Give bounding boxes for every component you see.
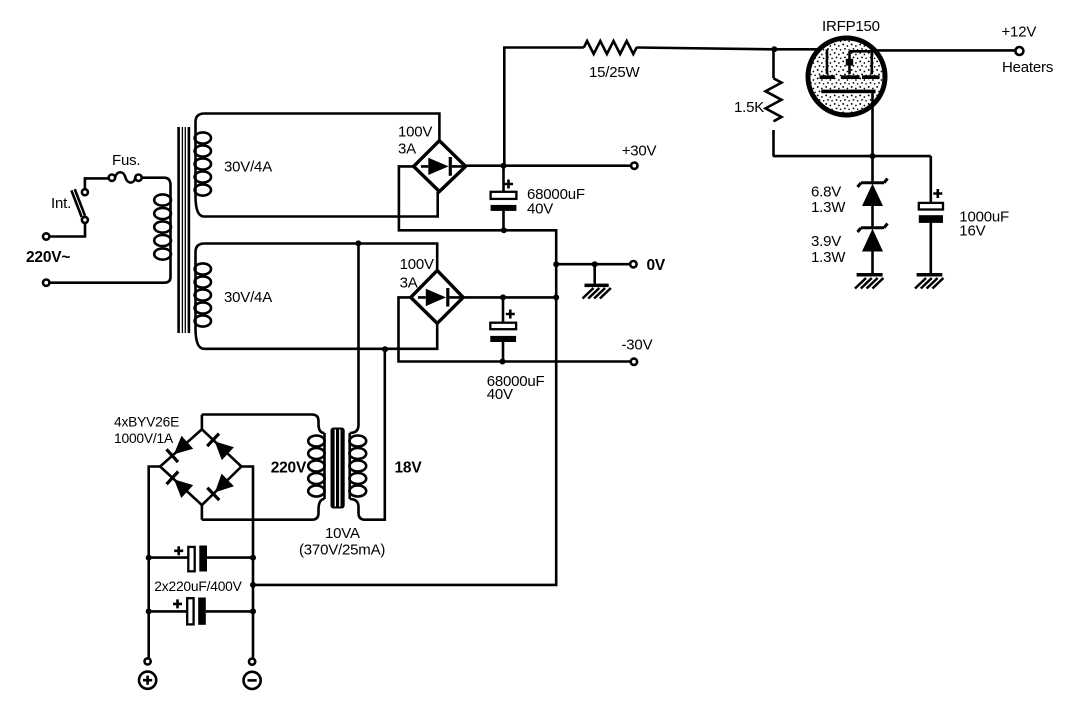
svg-text:3A: 3A xyxy=(398,140,416,157)
diode D3a xyxy=(174,436,193,455)
capacitor C5 220uF/400V xyxy=(149,546,253,572)
transformer T2 secondary 18V xyxy=(349,425,366,507)
transformer T2 core xyxy=(331,428,345,509)
wire input L to switch xyxy=(49,223,85,237)
ground main xyxy=(583,264,611,298)
wire T1 primary to input N xyxy=(49,277,170,283)
junction dot 0V xyxy=(553,261,559,267)
MOSFET Q1 IRFP150 xyxy=(808,38,885,156)
svg-text:18V: 18V xyxy=(395,460,423,477)
svg-text:+30V: +30V xyxy=(622,143,657,160)
junction dot 0V rail / B2 xyxy=(553,294,559,300)
bridge rectifier B1 100V 3A xyxy=(414,141,466,192)
junction dot C2 top xyxy=(500,294,506,300)
svg-text:30V/4A: 30V/4A xyxy=(224,159,272,176)
svg-text:0V: 0V xyxy=(647,257,666,274)
junction dot T2 sec bottom xyxy=(382,346,388,352)
capacitor C2 68000uF 40V xyxy=(490,297,516,361)
svg-text:15/25W: 15/25W xyxy=(589,64,641,81)
svg-text:220V: 220V xyxy=(271,460,307,477)
terminal plus xyxy=(139,658,156,689)
wire Q1 source to +12V xyxy=(873,49,1015,52)
junction dot gate xyxy=(870,153,876,159)
wire B3 plus rail xyxy=(149,467,160,659)
svg-text:10VA: 10VA xyxy=(325,525,360,542)
transformer T1 primary winding xyxy=(154,185,171,277)
svg-text:3.9V: 3.9V xyxy=(811,233,841,250)
capacitor C4 1000uF 16V xyxy=(919,156,943,273)
junction dot T2 sec top xyxy=(355,240,361,246)
svg-text:(370V/25mA): (370V/25mA) xyxy=(299,542,385,559)
junction dots C5 xyxy=(146,555,152,561)
junction dot 370V return xyxy=(250,582,256,588)
svg-text:1.3W: 1.3W xyxy=(811,199,846,216)
svg-text:+12V: +12V xyxy=(1002,24,1037,41)
diode D3c xyxy=(174,479,193,498)
wire B3 minus rail xyxy=(241,467,253,659)
T1 secondary winding 1 xyxy=(195,114,211,217)
svg-text:40V: 40V xyxy=(487,386,513,403)
ground C4 xyxy=(915,273,943,289)
svg-text:100V: 100V xyxy=(398,124,432,141)
resistor R2 1.5K xyxy=(766,49,782,156)
junction dot C1 bottom xyxy=(501,227,507,233)
switch Int. xyxy=(71,189,88,223)
junction dot ground stem xyxy=(592,261,598,267)
wire B3 bottom AC xyxy=(202,499,325,520)
wire B2 plus to 0V rail xyxy=(463,296,556,299)
diode D3b xyxy=(215,441,234,460)
svg-text:3A: 3A xyxy=(400,274,418,291)
zener D1 6.8V 1.3W xyxy=(858,156,888,226)
svg-text:1.3W: 1.3W xyxy=(811,249,846,266)
svg-text:40V: 40V xyxy=(527,200,553,217)
bridge rectifier B2 100V 3A xyxy=(411,270,464,323)
zener D2 3.9V 1.3W xyxy=(858,224,888,274)
junction dot C2 bottom xyxy=(500,359,506,365)
svg-text:16V: 16V xyxy=(959,223,985,240)
svg-text:-30V: -30V xyxy=(622,337,653,354)
svg-text:100V: 100V xyxy=(400,256,434,273)
transformer T1 core xyxy=(179,127,189,333)
diode D3d xyxy=(215,474,234,493)
wire 0V net (B1 minus to bottom return) xyxy=(253,166,556,585)
terminal 0V xyxy=(630,261,636,267)
svg-text:2x220uF/400V: 2x220uF/400V xyxy=(154,579,242,594)
bridge B3 4xBYV26E xyxy=(160,415,241,520)
capacitor C6 220uF/400V xyxy=(149,598,253,625)
wire -30V net xyxy=(399,297,631,361)
svg-text:1000V/1A: 1000V/1A xyxy=(114,431,174,446)
wire 0V spur to terminal xyxy=(556,263,630,266)
svg-text:4xBYV26E: 4xBYV26E xyxy=(114,415,179,430)
terminal -30V xyxy=(631,359,637,365)
wire gate net horizontal xyxy=(773,155,931,158)
wire switch to fuse xyxy=(85,178,109,189)
svg-text:220V~: 220V~ xyxy=(26,249,70,266)
svg-text:1.5K: 1.5K xyxy=(734,99,764,116)
junction dot R2 top xyxy=(771,46,777,52)
transformer T2 primary 220V xyxy=(308,433,324,499)
wire T2 secondary bottom to box2 xyxy=(359,349,385,520)
svg-text:Heaters: Heaters xyxy=(1002,59,1053,76)
svg-text:Int.: Int. xyxy=(51,195,71,212)
wire +30V riser to R1 xyxy=(504,48,584,166)
terminal +30V xyxy=(631,163,637,169)
junction dot C1 top xyxy=(501,163,507,169)
winding box 30V/4A lower xyxy=(204,244,438,349)
terminal +12V xyxy=(1015,47,1023,55)
svg-text:Fus.: Fus. xyxy=(112,152,140,169)
terminal minus xyxy=(244,659,261,690)
capacitor C1 68000uF 40V xyxy=(491,166,517,231)
input terminal N xyxy=(43,280,49,286)
wire R1 to Q1 drain xyxy=(636,48,827,50)
wire fuse to T1 primary xyxy=(142,178,171,185)
ground zener xyxy=(855,273,883,289)
svg-text:IRFP150: IRFP150 xyxy=(822,18,880,35)
wire box2 to T2 secondary top xyxy=(357,243,360,425)
svg-text:30V/4A: 30V/4A xyxy=(224,289,272,306)
wire B3 top AC xyxy=(202,415,325,434)
T1 secondary winding 2 xyxy=(195,244,211,349)
winding box 30V/4A upper xyxy=(204,114,440,217)
wire +30V line xyxy=(466,164,631,167)
input terminal L xyxy=(43,233,49,239)
resistor R1 15/25W xyxy=(584,41,637,54)
fuse Fus. xyxy=(109,172,142,182)
junction dots C6 xyxy=(146,608,152,614)
